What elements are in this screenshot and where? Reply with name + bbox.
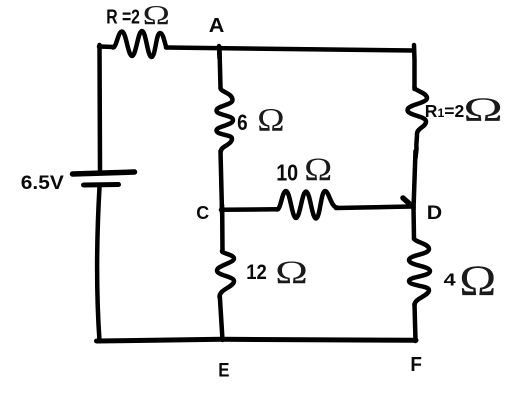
wire middle vertical 12-ohm to E [220, 296, 223, 340]
resistor 10 ohm [277, 191, 337, 219]
svg-text:E: E [218, 358, 229, 381]
wire top-left horizontal segment [99, 44, 114, 49]
label 4 ohm [444, 257, 497, 305]
wire bottom horizontal E F [97, 339, 417, 341]
resistor R (2 ohm, top) [113, 31, 167, 57]
resistor R1 (2 ohm) [408, 87, 428, 158]
svg-text:F: F [410, 354, 422, 377]
resistor 6 ohm [217, 88, 234, 151]
svg-text:6.5V: 6.5V [21, 173, 65, 194]
label E [218, 358, 229, 381]
svg-text:A: A [209, 15, 225, 37]
wire left vertical (top, source to corner) [97, 45, 102, 170]
svg-text:Ω: Ω [257, 102, 284, 138]
label 10 ohm [276, 150, 332, 187]
wire right vertical top corner to R1 [412, 45, 417, 89]
wire left vertical (battery to bottom-left corner) [97, 187, 99, 341]
resistor 4 ohm [409, 238, 430, 305]
svg-text:Ω: Ω [275, 254, 308, 291]
svg-text:R =2: R =2 [106, 4, 140, 28]
svg-text:Ω: Ω [304, 150, 332, 187]
svg-text:12: 12 [246, 261, 267, 285]
label A [209, 15, 225, 37]
wire middle horizontal 10-ohm to D with arrow [336, 198, 412, 208]
wire right vertical 4-ohm to F corner [415, 304, 416, 341]
svg-text:R1=2: R1=2 [425, 101, 465, 121]
label F [410, 354, 422, 377]
label 6 ohm [237, 102, 284, 138]
svg-text:D: D [427, 202, 442, 224]
wire middle horizontal C to 10-ohm [221, 207, 278, 212]
wire right vertical D to 4-ohm [411, 207, 416, 239]
svg-text:Ω: Ω [459, 257, 496, 305]
label 12 ohm [246, 254, 308, 291]
label D [427, 202, 442, 224]
wire right vertical R1 to D [414, 151, 416, 209]
node A junction tick [217, 46, 222, 58]
wire middle vertical 6-ohm to C [221, 151, 223, 212]
svg-text:C: C [196, 203, 209, 223]
svg-text:Ω: Ω [463, 90, 503, 128]
resistor 12 ohm [217, 251, 234, 297]
svg-text:6: 6 [237, 111, 248, 136]
battery V1 (6.5V) plates [73, 172, 135, 185]
wire middle vertical C to 12-ohm [220, 210, 225, 252]
label R =2 ohm [106, 0, 170, 30]
svg-text:4: 4 [444, 270, 456, 290]
wire top horizontal from R to top-right corner [166, 48, 414, 51]
wire middle vertical A to 6-ohm [220, 48, 221, 88]
svg-text:10: 10 [276, 159, 298, 186]
label R1=2 ohm [425, 90, 503, 128]
svg-text:Ω: Ω [143, 0, 170, 30]
label 6.5V [21, 173, 65, 194]
label C [196, 203, 209, 223]
node C junction [220, 205, 225, 216]
